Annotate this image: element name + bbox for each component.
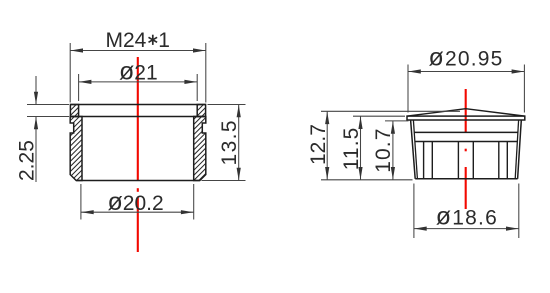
svg-text:ø21: ø21 — [119, 58, 158, 86]
brim (top flange rectangle) — [407, 116, 525, 120]
tent top (cone) — [407, 109, 524, 116]
svg-text:2.25: 2.25 — [16, 140, 39, 181]
svg-text:12.7: 12.7 — [307, 124, 330, 165]
star symbol in M24*1 — [149, 35, 158, 45]
dimension 2.25 (flange height, far left) — [27, 76, 69, 182]
left rim wall (hatched, ø21 band) — [70, 105, 78, 117]
body outer wall right (tapered) — [518, 120, 522, 179]
body outer wall left (tapered) — [411, 120, 416, 179]
top face line — [70, 104, 206, 106]
upper interior line A — [414, 131, 518, 133]
right rim wall (hatched) — [197, 105, 205, 117]
dimension ø20.95 (top) — [408, 65, 524, 113]
svg-text:13.5: 13.5 — [218, 119, 241, 165]
dimension 11.5 (height to brim top) — [353, 116, 405, 179]
bottom face line — [76, 180, 200, 182]
body inner wall line right — [515, 120, 518, 179]
body inner wall line left — [413, 120, 417, 179]
svg-text:1: 1 — [158, 29, 170, 52]
svg-text:M24: M24 — [106, 29, 147, 52]
left main wall (hatched, with thread-relief notch and bottom chamfer) — [70, 117, 82, 181]
right main wall (hatched, with thread-relief notch and bottom chamfer) — [194, 117, 206, 181]
dimension ø21 — [79, 74, 198, 101]
vertical ribs — [424, 142, 508, 179]
svg-text:ø20.95: ø20.95 — [429, 44, 504, 72]
bottom edge line — [415, 178, 517, 180]
dimension 12.7 (total height) — [321, 111, 460, 180]
centerline (red) left view — [137, 57, 139, 252]
shoulder line (rim / bore step) — [70, 116, 206, 118]
svg-text:ø18.6: ø18.6 — [436, 202, 498, 230]
svg-text:ø20.2: ø20.2 — [108, 188, 164, 216]
centerline (red) right view — [465, 89, 467, 209]
dimension 10.7 (height to brim bottom) — [385, 121, 409, 180]
svg-text:11.5: 11.5 — [340, 127, 363, 171]
lower interior line B — [415, 141, 518, 143]
dimension ø20.2 (bottom bore) — [81, 184, 194, 220]
dimension ø18.6 (bottom) — [414, 184, 519, 239]
svg-text:10.7: 10.7 — [372, 128, 395, 173]
dimension 13.5 (overall height, right of left view) — [202, 105, 246, 181]
dimension M24*1 — [70, 43, 206, 103]
